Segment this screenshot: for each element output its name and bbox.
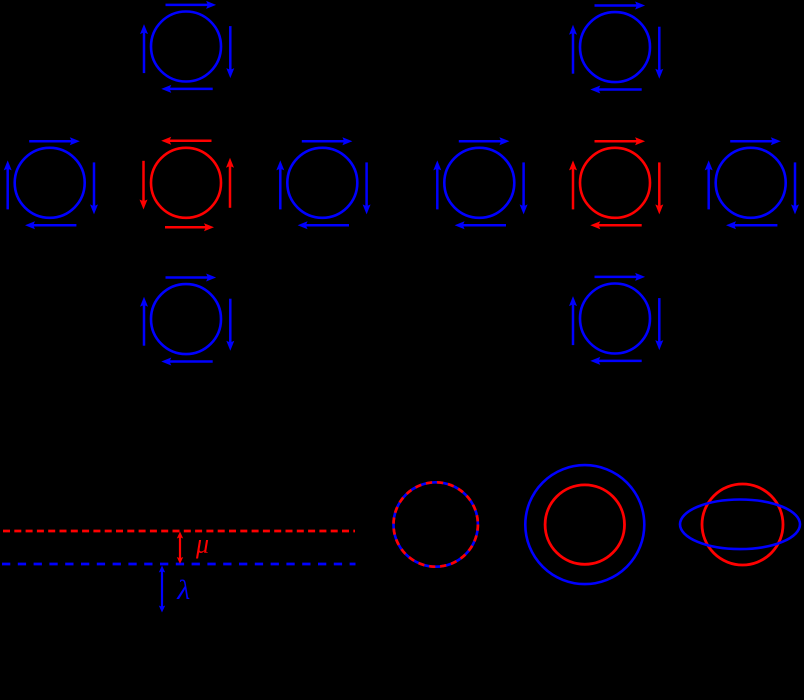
svg-text:μ: μ <box>195 529 209 559</box>
svg-text:λ: λ <box>176 575 190 605</box>
